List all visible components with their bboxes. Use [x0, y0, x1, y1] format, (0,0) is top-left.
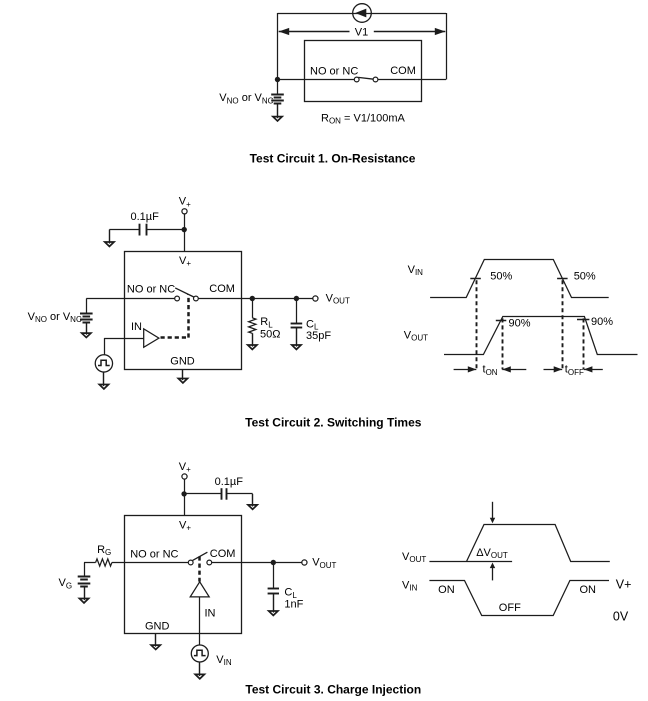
waveform trace VOUT (circuit 2): [444, 317, 638, 355]
dashed control line (circuit 3): [198, 556, 201, 581]
capacitor 0.1uF (circuit 3 bypass): [222, 488, 227, 500]
svg-text:VOUT: VOUT: [326, 292, 350, 305]
svg-text:ON: ON: [579, 584, 596, 596]
wire: COM output (circuit 1): [378, 79, 446, 81]
pulse source VIN (circuit 3): [191, 645, 208, 662]
svg-text:Test Circuit 3. Charge Injecti: Test Circuit 3. Charge Injection: [245, 682, 421, 696]
wire: RG to switch (circuit 3): [112, 562, 188, 564]
svg-text:NO or NC: NO or NC: [127, 284, 175, 296]
svg-text:V+: V+: [179, 255, 191, 268]
svg-text:90%: 90%: [591, 316, 613, 328]
wire: outer loop top (circuit 1): [278, 13, 447, 15]
wire: battery top (circuit 1): [277, 79, 279, 94]
capacitor CL 35pF: [291, 324, 303, 328]
svg-text:NO or NC: NO or NC: [130, 549, 178, 561]
wire: V+ terminal down into box (circuit 2): [184, 214, 186, 251]
delta VOUT up arrow: [490, 563, 495, 581]
wire: COM to VOUT (circuit 3): [212, 562, 302, 564]
svg-text:VNO or VNC: VNO or VNC: [28, 311, 82, 324]
tON arrow right: [502, 366, 526, 372]
svg-text:COM: COM: [210, 548, 236, 560]
wire: source to ground (circuit 3): [199, 662, 201, 674]
svg-text:VNO or VNC: VNO or VNC: [219, 92, 273, 105]
svg-text:COM: COM: [390, 65, 416, 77]
capacitor 0.1uF (circuit 2 bypass): [140, 224, 147, 236]
battery VNO/VNC (circuit 1): [271, 95, 284, 104]
battery VG (circuit 3): [78, 577, 91, 587]
svg-text:35pF: 35pF: [306, 330, 331, 342]
wire: CL top (circuit 2): [296, 299, 298, 324]
wire: GND pin stub (circuit 2): [182, 370, 184, 379]
svg-text:ON: ON: [438, 584, 455, 596]
ground (CL circuit 3): [269, 593, 278, 615]
svg-text:OFF: OFF: [499, 602, 521, 614]
wire: COM to VOUT (circuit 2): [198, 298, 313, 300]
svg-text:ΔVOUT: ΔVOUT: [476, 547, 508, 560]
node: CL junction (circuit 3): [271, 560, 276, 565]
ground (circuit 2 battery): [82, 323, 91, 338]
wire: CL bottom (circuit 2): [296, 328, 298, 346]
wire: GND pin stub (circuit 3): [155, 633, 157, 645]
svg-text:VG: VG: [59, 577, 73, 590]
svg-text:VIN: VIN: [402, 579, 418, 592]
tick 90% rising: [496, 320, 507, 322]
svg-text:RG: RG: [97, 544, 111, 557]
wire: junction to bypass cap (circuit 3): [184, 493, 221, 495]
dashed marker 90% falling: [583, 318, 585, 369]
tOFF arrow right: [584, 366, 603, 372]
delta VOUT down arrow: [490, 502, 495, 524]
svg-text:50%: 50%: [490, 270, 512, 282]
ground (circuit 2 GND pin): [178, 370, 187, 383]
svg-text:IN: IN: [205, 607, 216, 619]
terminal: VOUT (circuit 2): [313, 296, 318, 301]
wire: source to ground (circuit 2): [103, 372, 105, 384]
wire: VNO/VNC to switch (circuit 2): [86, 298, 175, 300]
svg-text:VIN: VIN: [216, 654, 232, 667]
wire: RL bottom (circuit 2): [252, 333, 254, 345]
tON arrow left: [454, 366, 477, 372]
ground (RL): [248, 333, 257, 349]
wire: NO/NC input (circuit 1): [278, 79, 355, 81]
svg-text:Test Circuit 2. Switching Time: Test Circuit 2. Switching Times: [245, 415, 422, 429]
node: CL junction (circuit 2): [294, 296, 299, 301]
ground (CL circuit 2): [292, 328, 301, 350]
V1 dimension arrow left: [279, 28, 350, 35]
svg-text:NO or NC: NO or NC: [310, 66, 358, 78]
waveform trace VIN (circuit 2): [430, 260, 609, 298]
node: RL junction (circuit 2): [250, 296, 255, 301]
svg-text:VOUT: VOUT: [404, 329, 428, 342]
svg-text:VOUT: VOUT: [402, 551, 426, 564]
wire: V+ terminal down into box (circuit 3): [184, 479, 186, 515]
resistor RG: [96, 559, 112, 566]
tOFF arrow left: [544, 366, 563, 372]
svg-text:50%: 50%: [574, 271, 596, 283]
switch S1 (closed): [354, 77, 378, 82]
tick 90% falling: [577, 319, 589, 321]
svg-text:IN: IN: [131, 321, 142, 333]
terminal: V+ (circuit 3): [182, 474, 187, 479]
svg-text:V+: V+: [179, 461, 191, 474]
ground (VG): [79, 586, 88, 603]
wire: IN source to buffer (circuit 2): [104, 338, 144, 355]
wire: VG drop (circuit 3): [84, 563, 86, 577]
wire: outer loop left vertical (circuit 1): [277, 13, 279, 79]
wire: battery drop (circuit 2): [86, 299, 88, 314]
svg-text:GND: GND: [170, 356, 195, 368]
svg-text:V1: V1: [355, 26, 368, 38]
svg-text:90%: 90%: [509, 318, 531, 330]
wire: VG battery to ground (circuit 3): [84, 586, 86, 598]
waveform VOUT baseline (circuit 3): [429, 561, 512, 563]
wire: buffer input down to source (circuit 3): [199, 597, 201, 645]
DUT box (circuit 1): [305, 41, 422, 102]
wire: bypass cap to ground (circuit 3): [227, 494, 253, 505]
battery VNO/VNC (circuit 2): [80, 314, 93, 323]
svg-text:tON: tON: [483, 364, 498, 377]
svg-text:GND: GND: [145, 621, 170, 633]
svg-text:1nF: 1nF: [284, 598, 303, 610]
capacitor CL 1nF: [268, 589, 279, 594]
wire: VG to RG (circuit 3): [84, 562, 96, 564]
resistor RL 50ohm: [249, 318, 256, 334]
ground (circuit 3 GND pin): [151, 633, 160, 650]
terminal: V+ (circuit 2): [182, 209, 187, 214]
ground (circuit 3 bypass cap): [248, 494, 257, 509]
waveform trace VIN (circuit 3): [429, 581, 609, 616]
svg-text:VIN: VIN: [408, 264, 424, 277]
wire: battery to ground (circuit 1): [277, 104, 279, 117]
svg-text:V+: V+: [616, 578, 632, 592]
V1 dimension arrow right: [374, 28, 446, 35]
wire: junction to bypass cap (circuit 2): [146, 229, 184, 231]
svg-text:0.1µF: 0.1µF: [131, 211, 160, 223]
svg-text:50Ω: 50Ω: [260, 328, 280, 340]
terminal: VOUT (circuit 3): [302, 560, 307, 565]
wire: bypass cap to ground (circuit 2): [109, 230, 139, 243]
dashed marker 50% rising: [476, 280, 478, 369]
tick 50% rising: [470, 278, 481, 280]
dashed marker 50% falling: [562, 280, 564, 369]
svg-text:RON = V1/100mA: RON = V1/100mA: [321, 112, 406, 125]
dashed marker 90% rising: [502, 318, 504, 369]
wire: CL bottom (circuit 3): [273, 593, 275, 611]
node: V+ junction (circuit 2): [182, 227, 187, 232]
dashed control line (circuit 2): [161, 295, 189, 338]
DUT box (circuit 3): [125, 516, 242, 634]
svg-text:Test Circuit 1. On-Resistance: Test Circuit 1. On-Resistance: [250, 152, 416, 166]
wire: CL top (circuit 3): [273, 562, 275, 589]
wire: RL top (circuit 2): [252, 299, 254, 318]
pulse source VIN (circuit 2): [95, 355, 112, 372]
ground (circuit 1 battery): [273, 104, 282, 121]
wire: outer loop right vertical (circuit 1): [446, 13, 448, 80]
driver buffer U1 (circuit 2): [144, 329, 159, 347]
switch S3 (open, lever up-right): [188, 552, 211, 565]
svg-text:V+: V+: [179, 520, 191, 533]
svg-text:VOUT: VOUT: [312, 557, 336, 570]
driver buffer U2 (circuit 3, pointing up): [190, 582, 209, 597]
svg-text:0V: 0V: [613, 609, 629, 623]
wire: battery to ground (circuit 2): [86, 322, 88, 332]
ground (circuit 2 bypass cap): [105, 230, 114, 247]
current source I1 (100mA): [353, 4, 372, 23]
svg-text:V+: V+: [179, 196, 191, 209]
DUT box (circuit 2): [125, 252, 242, 370]
tick 50% falling: [557, 278, 568, 280]
switch S2 (open, lever from COM up-left): [175, 288, 199, 301]
waveform trace VOUT (circuit 3): [467, 525, 610, 562]
svg-text:0.1µF: 0.1µF: [215, 476, 244, 488]
node: V+ junction (circuit 3): [181, 491, 186, 496]
ground (circuit 2 source): [99, 372, 108, 389]
svg-text:tOFF: tOFF: [565, 364, 584, 377]
node: junction at VNO/VNC (circuit 1): [275, 77, 280, 82]
svg-text:COM: COM: [209, 283, 235, 295]
ground (circuit 3 source): [195, 662, 204, 679]
